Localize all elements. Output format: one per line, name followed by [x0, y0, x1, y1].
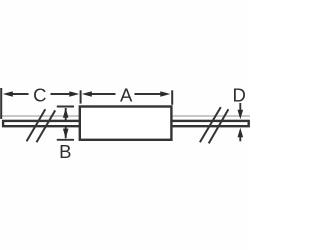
svg-text:D: D [233, 85, 246, 106]
svg-text:A: A [120, 84, 133, 105]
svg-text:C: C [33, 84, 46, 105]
svg-text:B: B [59, 141, 71, 162]
